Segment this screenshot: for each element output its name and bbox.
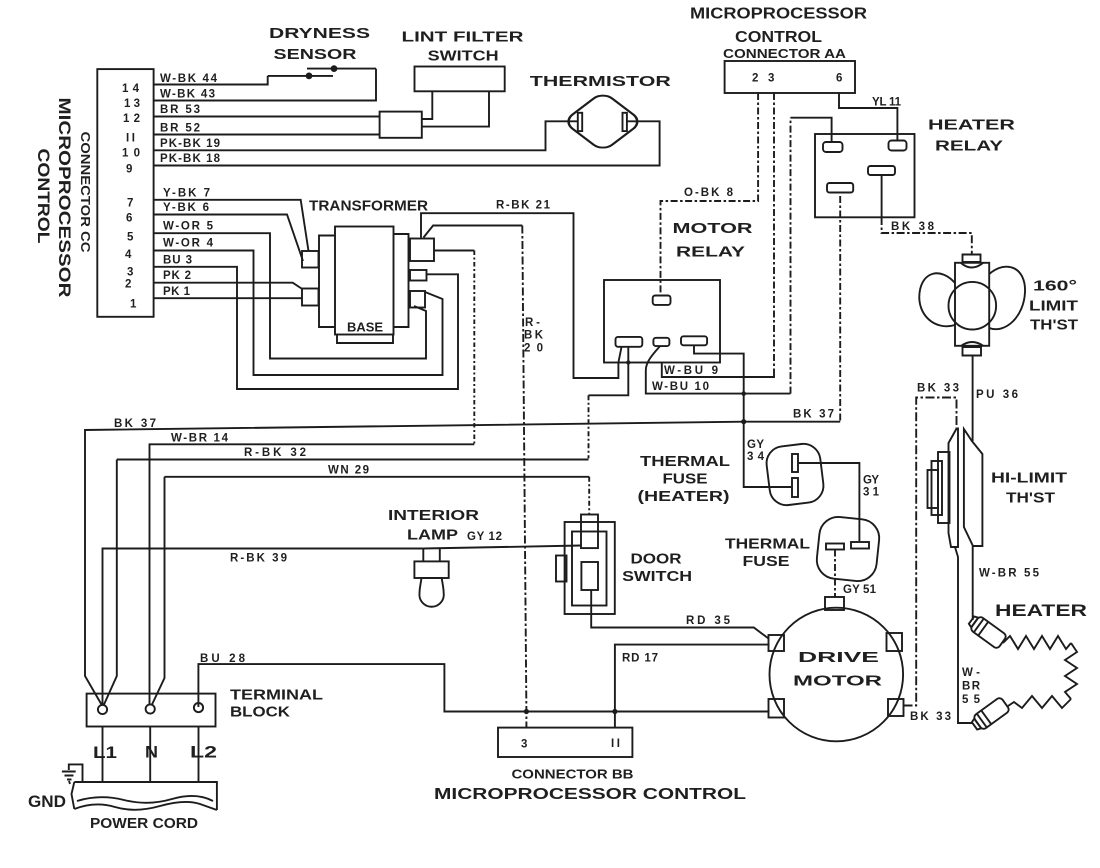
dryness sensor upper contact dot	[331, 65, 338, 72]
transformer top-right pin	[410, 239, 434, 262]
terminal screw L2	[194, 703, 203, 712]
wire PK 2 (pin 2 to transformer lower-left pin)	[154, 270, 303, 290]
motor relay pin A	[616, 337, 643, 347]
hi-limit right blade	[964, 429, 983, 546]
wire RD 17 (connector BB pin 11 to drive motor)	[615, 645, 770, 728]
svg-text:160°: 160°	[1033, 279, 1077, 295]
lamp leads	[423, 548, 440, 562]
svg-text:THERMISTOR: THERMISTOR	[530, 74, 672, 90]
interior lamp	[388, 508, 480, 607]
heater relay	[815, 118, 1016, 218]
heater element resistor (right side)	[1065, 643, 1077, 699]
thermal fuse left element	[826, 544, 844, 550]
drive motor lower-right terminal	[888, 699, 904, 716]
junction BU 28 with connector BB pin 3	[524, 709, 529, 714]
svg-text:W-OR 5: W-OR 5	[163, 221, 214, 233]
dryness sensor lower contact dot	[306, 73, 313, 80]
svg-text:MICROPROCESSOR CONTROL: MICROPROCESSOR CONTROL	[434, 786, 746, 803]
svg-text:INTERIOR: INTERIOR	[388, 508, 480, 524]
heater relay middle contact	[868, 166, 895, 175]
svg-text:PU 36: PU 36	[976, 389, 1018, 401]
wire W-BU 9 (connector AA pin 3 to motor relay)	[662, 93, 774, 377]
svg-text:TH'ST: TH'ST	[1006, 491, 1055, 507]
transformer right bracket	[394, 234, 409, 327]
svg-text:SWITCH: SWITCH	[428, 49, 499, 65]
svg-text:W-BK 43: W-BK 43	[160, 89, 215, 101]
svg-text:R-BK 21: R-BK 21	[496, 200, 551, 212]
wire R-BK 39 (terminal L1 to interior lamp)	[103, 549, 424, 705]
wire BR 53 (pin 12 to lint filter connector)	[154, 104, 380, 117]
lamp bulb	[419, 578, 443, 607]
svg-text:RD 35: RD 35	[686, 615, 731, 627]
wire WN 29 (terminal N to door switch)	[152, 465, 589, 705]
terminal screw L1	[98, 705, 107, 714]
svg-text:BR 53: BR 53	[160, 104, 200, 116]
svg-text:3: 3	[768, 73, 774, 85]
svg-text:1: 1	[130, 299, 137, 311]
svg-text:THERMAL: THERMAL	[725, 537, 810, 553]
svg-text:(HEATER): (HEATER)	[638, 489, 730, 505]
wire W-BK 43 (pin 13 to dryness sensor)	[154, 69, 376, 101]
wire BU 3 (pin 3 loop to transformer middle pin)	[154, 255, 458, 390]
svg-text:DRIVE: DRIVE	[798, 650, 880, 666]
transformer upper-left pin	[302, 251, 319, 268]
svg-text:LIMIT: LIMIT	[1029, 299, 1078, 315]
svg-text:9: 9	[126, 164, 132, 176]
svg-text:31: 31	[863, 487, 880, 499]
svg-text:BK 38: BK 38	[891, 221, 935, 233]
motor relay pin B	[653, 338, 669, 346]
svg-text:6: 6	[126, 213, 132, 225]
svg-text:WN 29: WN 29	[328, 465, 369, 477]
svg-text:BK 33: BK 33	[910, 711, 951, 723]
160 degree limit thermostat	[919, 255, 1078, 356]
svg-text:DOOR: DOOR	[631, 552, 683, 568]
transformer lower-right pin	[410, 291, 425, 308]
svg-text:2: 2	[752, 73, 758, 85]
svg-text:Y-BK 6: Y-BK 6	[163, 202, 209, 214]
wire R-BK 32 (terminal L1 to motor relay pin A)	[104, 447, 589, 705]
wire motor relay pin A to R-BK 32 (door circuit)	[589, 347, 629, 396]
svg-text:BU 28: BU 28	[200, 653, 246, 665]
svg-text:BK 33: BK 33	[917, 383, 959, 395]
transformer left bracket	[319, 236, 335, 328]
svg-text:II: II	[126, 133, 135, 145]
heater element resistor (bottom)	[1008, 696, 1071, 708]
160 limit top terminal	[963, 255, 981, 263]
svg-text:RD 17: RD 17	[622, 653, 658, 665]
door switch inner case	[572, 532, 607, 606]
lint filter switch	[402, 30, 525, 92]
svg-text:PK-BK 19: PK-BK 19	[160, 138, 220, 150]
svg-text:R-BK 32: R-BK 32	[244, 447, 306, 459]
svg-text:GY 51: GY 51	[843, 584, 877, 596]
wire motor relay pin C / GY 34 (to thermal fuse heater)	[694, 345, 791, 487]
svg-text:L1: L1	[93, 743, 117, 762]
svg-text:HEATER: HEATER	[995, 602, 1087, 620]
thermistor	[530, 74, 672, 152]
svg-text:BK 37: BK 37	[114, 418, 156, 430]
wire GY 31 (thermal fuse heater to thermal fuse)	[798, 463, 880, 541]
transformer body	[335, 227, 394, 335]
svg-text:BR: BR	[962, 681, 981, 693]
hi-limit stepped body rect 3	[938, 452, 950, 523]
svg-text:BR 52: BR 52	[160, 123, 200, 135]
svg-text:14: 14	[122, 83, 140, 95]
drive motor	[769, 597, 904, 741]
connector BB (microprocessor control)	[434, 728, 746, 803]
svg-text:W-OR 4: W-OR 4	[163, 238, 214, 250]
svg-text:PK 1: PK 1	[163, 286, 191, 298]
wire W-BK 44 (pin 14 to dryness sensor)	[154, 73, 268, 85]
svg-text:LAMP: LAMP	[407, 528, 458, 544]
svg-text:CONTROL: CONTROL	[735, 29, 822, 46]
wire W-BR 14 (transformer to terminal L1)	[150, 433, 475, 705]
door switch left tab	[556, 556, 567, 582]
power cord	[72, 782, 217, 832]
svg-text:34: 34	[747, 451, 765, 463]
svg-text:BASE: BASE	[347, 321, 383, 335]
door switch inner contact	[581, 562, 598, 590]
wire PK-BK 19 (pin 10 to thermistor)	[154, 121, 578, 150]
terminal screw N	[146, 704, 155, 713]
svg-text:Y-BK 7: Y-BK 7	[163, 188, 210, 200]
svg-text:L2: L2	[190, 743, 217, 762]
thermal fuse (motor)	[725, 515, 881, 583]
svg-text:DRYNESS: DRYNESS	[269, 26, 370, 42]
svg-text:W-BU 9: W-BU 9	[664, 365, 718, 377]
drive motor lower-left terminal	[769, 699, 785, 718]
motor relay coil pin	[653, 296, 671, 305]
wire transformer big pin to W-BR 14 dropper	[434, 250, 474, 252]
svg-text:MICROPROCESSOR: MICROPROCESSOR	[690, 6, 867, 23]
wire W-BR 55 (hi-limit to heater top element)	[973, 546, 1040, 620]
connector CC (microprocessor control)	[97, 69, 153, 317]
svg-text:W-BU 10: W-BU 10	[652, 381, 709, 393]
wire R-BK 20 (transformer to connector BB pin 3)	[424, 226, 544, 728]
svg-text:O-BK 8: O-BK 8	[684, 187, 734, 199]
thermal fuse right element	[851, 542, 869, 549]
transformer base lip	[337, 335, 393, 344]
svg-text:BK: BK	[524, 330, 544, 342]
svg-text:4: 4	[125, 249, 132, 261]
svg-text:R-: R-	[525, 317, 540, 329]
heater relay lower-left contact	[827, 183, 853, 193]
svg-text:FUSE: FUSE	[743, 554, 790, 570]
ground wire	[69, 764, 83, 782]
door switch	[556, 515, 692, 615]
heater element assembly	[967, 602, 1088, 733]
ground symbol	[62, 772, 76, 785]
160 limit bimetal disc	[949, 282, 997, 330]
heater relay top-right contact	[889, 141, 907, 151]
160 limit bottom terminal	[963, 347, 982, 356]
drive motor top terminal	[825, 597, 844, 610]
wire W-BU 10 (motor relay to heater relay coil)	[646, 118, 832, 394]
connector AA (microprocessor control)	[690, 6, 867, 94]
svg-text:GY 12: GY 12	[467, 531, 502, 543]
wire W-OR 4 (pin 4 loop to transformer lower pin)	[154, 238, 443, 376]
lint filter connector block	[380, 112, 422, 138]
svg-text:2: 2	[125, 279, 131, 291]
svg-text:W-BK 44: W-BK 44	[160, 73, 218, 85]
wire PK 1 (pin 1 to transformer lower-left pin)	[154, 286, 302, 298]
wire BK 37 (terminal L1 to heater relay)	[85, 193, 840, 705]
svg-text:MOTOR: MOTOR	[673, 221, 754, 237]
svg-text:12: 12	[123, 113, 140, 125]
thermal fuse (heater) upper element	[792, 454, 798, 472]
svg-text:N: N	[145, 743, 158, 762]
svg-text:FUSE: FUSE	[663, 472, 708, 488]
svg-text:5: 5	[127, 232, 134, 244]
wire BR 52 (pin 11 to lint filter connector)	[154, 123, 380, 135]
svg-text:BLOCK: BLOCK	[230, 705, 291, 721]
160 limit right wing	[989, 267, 1025, 330]
heater relay top-left contact	[823, 142, 843, 152]
door switch outer case	[565, 522, 615, 614]
wire R-BK 21 (transformer to motor relay)	[421, 200, 622, 379]
svg-text:55: 55	[962, 694, 981, 706]
wire lint connector to switch (left lead)	[422, 91, 433, 119]
dryness sensor	[268, 26, 376, 79]
svg-text:MOTOR: MOTOR	[793, 674, 883, 690]
junction pin C wire with W-BU 10	[741, 391, 746, 396]
junction pin C wire with BK 37	[741, 419, 746, 424]
wire Y-BK 7 (pin 7 to transformer)	[154, 188, 309, 252]
svg-text:3: 3	[521, 739, 527, 751]
heater bottom plug connector	[970, 697, 1011, 733]
svg-text:MICROPROCESSOR: MICROPROCESSOR	[55, 98, 73, 298]
thermistor right electrode	[623, 113, 627, 131]
wire Y-BK 6 (pin 6 to transformer)	[154, 202, 303, 261]
wire GY 51 (thermal fuse to drive motor)	[835, 550, 877, 598]
heater top plug connector	[967, 613, 1008, 649]
motor relay	[604, 221, 753, 363]
transformer T1	[302, 199, 434, 344]
svg-text:YL 11: YL 11	[872, 97, 902, 109]
svg-text:20: 20	[524, 343, 543, 355]
wire BU 28 (terminal L2 to drive motor)	[198, 653, 769, 712]
svg-text:POWER CORD: POWER CORD	[90, 816, 198, 832]
svg-text:CONNECTOR BB: CONNECTOR BB	[512, 768, 634, 782]
wire L1 to power cord	[102, 727, 104, 783]
terminal block	[87, 688, 324, 763]
junction pin A at relay box bottom	[626, 360, 630, 364]
svg-text:R-BK 39: R-BK 39	[230, 553, 287, 565]
lamp socket	[414, 561, 448, 578]
wire lint connector to switch (right lead)	[422, 91, 489, 126]
svg-text:13: 13	[124, 98, 140, 110]
svg-text:SENSOR: SENSOR	[274, 47, 358, 63]
svg-text:LINT FILTER: LINT FILTER	[402, 30, 525, 46]
dryness sensor lower contact line	[268, 75, 333, 77]
drive motor upper-right terminal	[887, 633, 903, 651]
svg-text:BK 37: BK 37	[793, 409, 834, 421]
wire BK 38 (heater relay to 160 limit thermostat)	[882, 175, 972, 255]
svg-text:W-BR 14: W-BR 14	[171, 433, 229, 445]
wire W-OR 5 (pin 5 loop to transformer lower pin)	[154, 221, 426, 359]
svg-text:W-: W-	[962, 667, 980, 679]
door switch top pin	[581, 515, 598, 549]
svg-text:GY: GY	[747, 439, 764, 451]
svg-text:SWITCH: SWITCH	[622, 569, 692, 585]
svg-text:CONTROL: CONTROL	[34, 149, 52, 244]
wire PU 36 (160 limit to hi-limit)	[973, 356, 1018, 442]
wire GY 12 (interior lamp to door switch)	[423, 531, 581, 549]
svg-text:THERMAL: THERMAL	[640, 454, 730, 470]
svg-text:3: 3	[127, 267, 133, 279]
svg-text:TRANSFORMER: TRANSFORMER	[309, 199, 429, 215]
svg-text:RELAY: RELAY	[935, 139, 1003, 155]
hi-limit stepped body rect 2	[932, 461, 943, 515]
svg-text:6: 6	[836, 73, 842, 85]
svg-text:BU 3: BU 3	[163, 255, 192, 267]
junction BU 28 with RD 17	[612, 709, 617, 714]
heater element resistor (top)	[1003, 636, 1071, 649]
wire YL 11 (connector AA pin 6 to heater relay)	[839, 93, 902, 141]
wire O-BK 8 (connector AA pin 2 to motor relay coil)	[661, 93, 759, 296]
svg-text:W-BR 55: W-BR 55	[979, 568, 1040, 580]
svg-text:PK-BK 18: PK-BK 18	[160, 153, 221, 165]
svg-text:TH'ST: TH'ST	[1030, 318, 1078, 334]
transformer middle-right pin	[410, 270, 427, 281]
thermal fuse (heater) lower element	[792, 478, 798, 497]
svg-text:PK 2: PK 2	[163, 270, 191, 282]
thermistor left electrode	[578, 113, 582, 131]
svg-text:CONNECTOR AA: CONNECTOR AA	[723, 47, 846, 61]
motor relay pin C	[681, 336, 707, 345]
wire RD 35 (door switch to drive motor)	[591, 590, 768, 639]
svg-text:10: 10	[122, 148, 140, 160]
hi-limit central blade	[949, 429, 959, 548]
svg-text:CONNECTOR CC: CONNECTOR CC	[78, 132, 92, 253]
wire L2 to power cord	[198, 727, 200, 783]
thermal fuse (heater)	[638, 442, 826, 507]
svg-text:7: 7	[127, 198, 133, 210]
160 limit frame	[955, 263, 989, 346]
dryness sensor upper contact line	[307, 68, 376, 70]
wire BK 33 (drive motor to hi-limit)	[904, 383, 960, 724]
svg-text:RELAY: RELAY	[676, 245, 745, 261]
svg-text:HEATER: HEATER	[928, 118, 1016, 134]
160 limit left wing	[919, 273, 955, 326]
drive motor upper-left terminal	[769, 635, 785, 651]
svg-text:HI-LIMIT: HI-LIMIT	[991, 471, 1067, 487]
svg-text:GY: GY	[863, 475, 879, 487]
hi-limit stepped body rect 1	[928, 470, 939, 508]
svg-text:GND: GND	[28, 792, 66, 811]
svg-text:II: II	[611, 738, 620, 750]
wire N to power cord	[149, 727, 151, 783]
transformer lower-left pin	[302, 289, 319, 306]
wire W-BR 55 (hi-limit to heater bottom element)	[955, 547, 981, 723]
hi-limit thermostat	[928, 429, 1068, 548]
svg-text:TERMINAL: TERMINAL	[230, 688, 323, 704]
wire PK-BK 18 (pin 9 to thermistor)	[154, 121, 660, 165]
